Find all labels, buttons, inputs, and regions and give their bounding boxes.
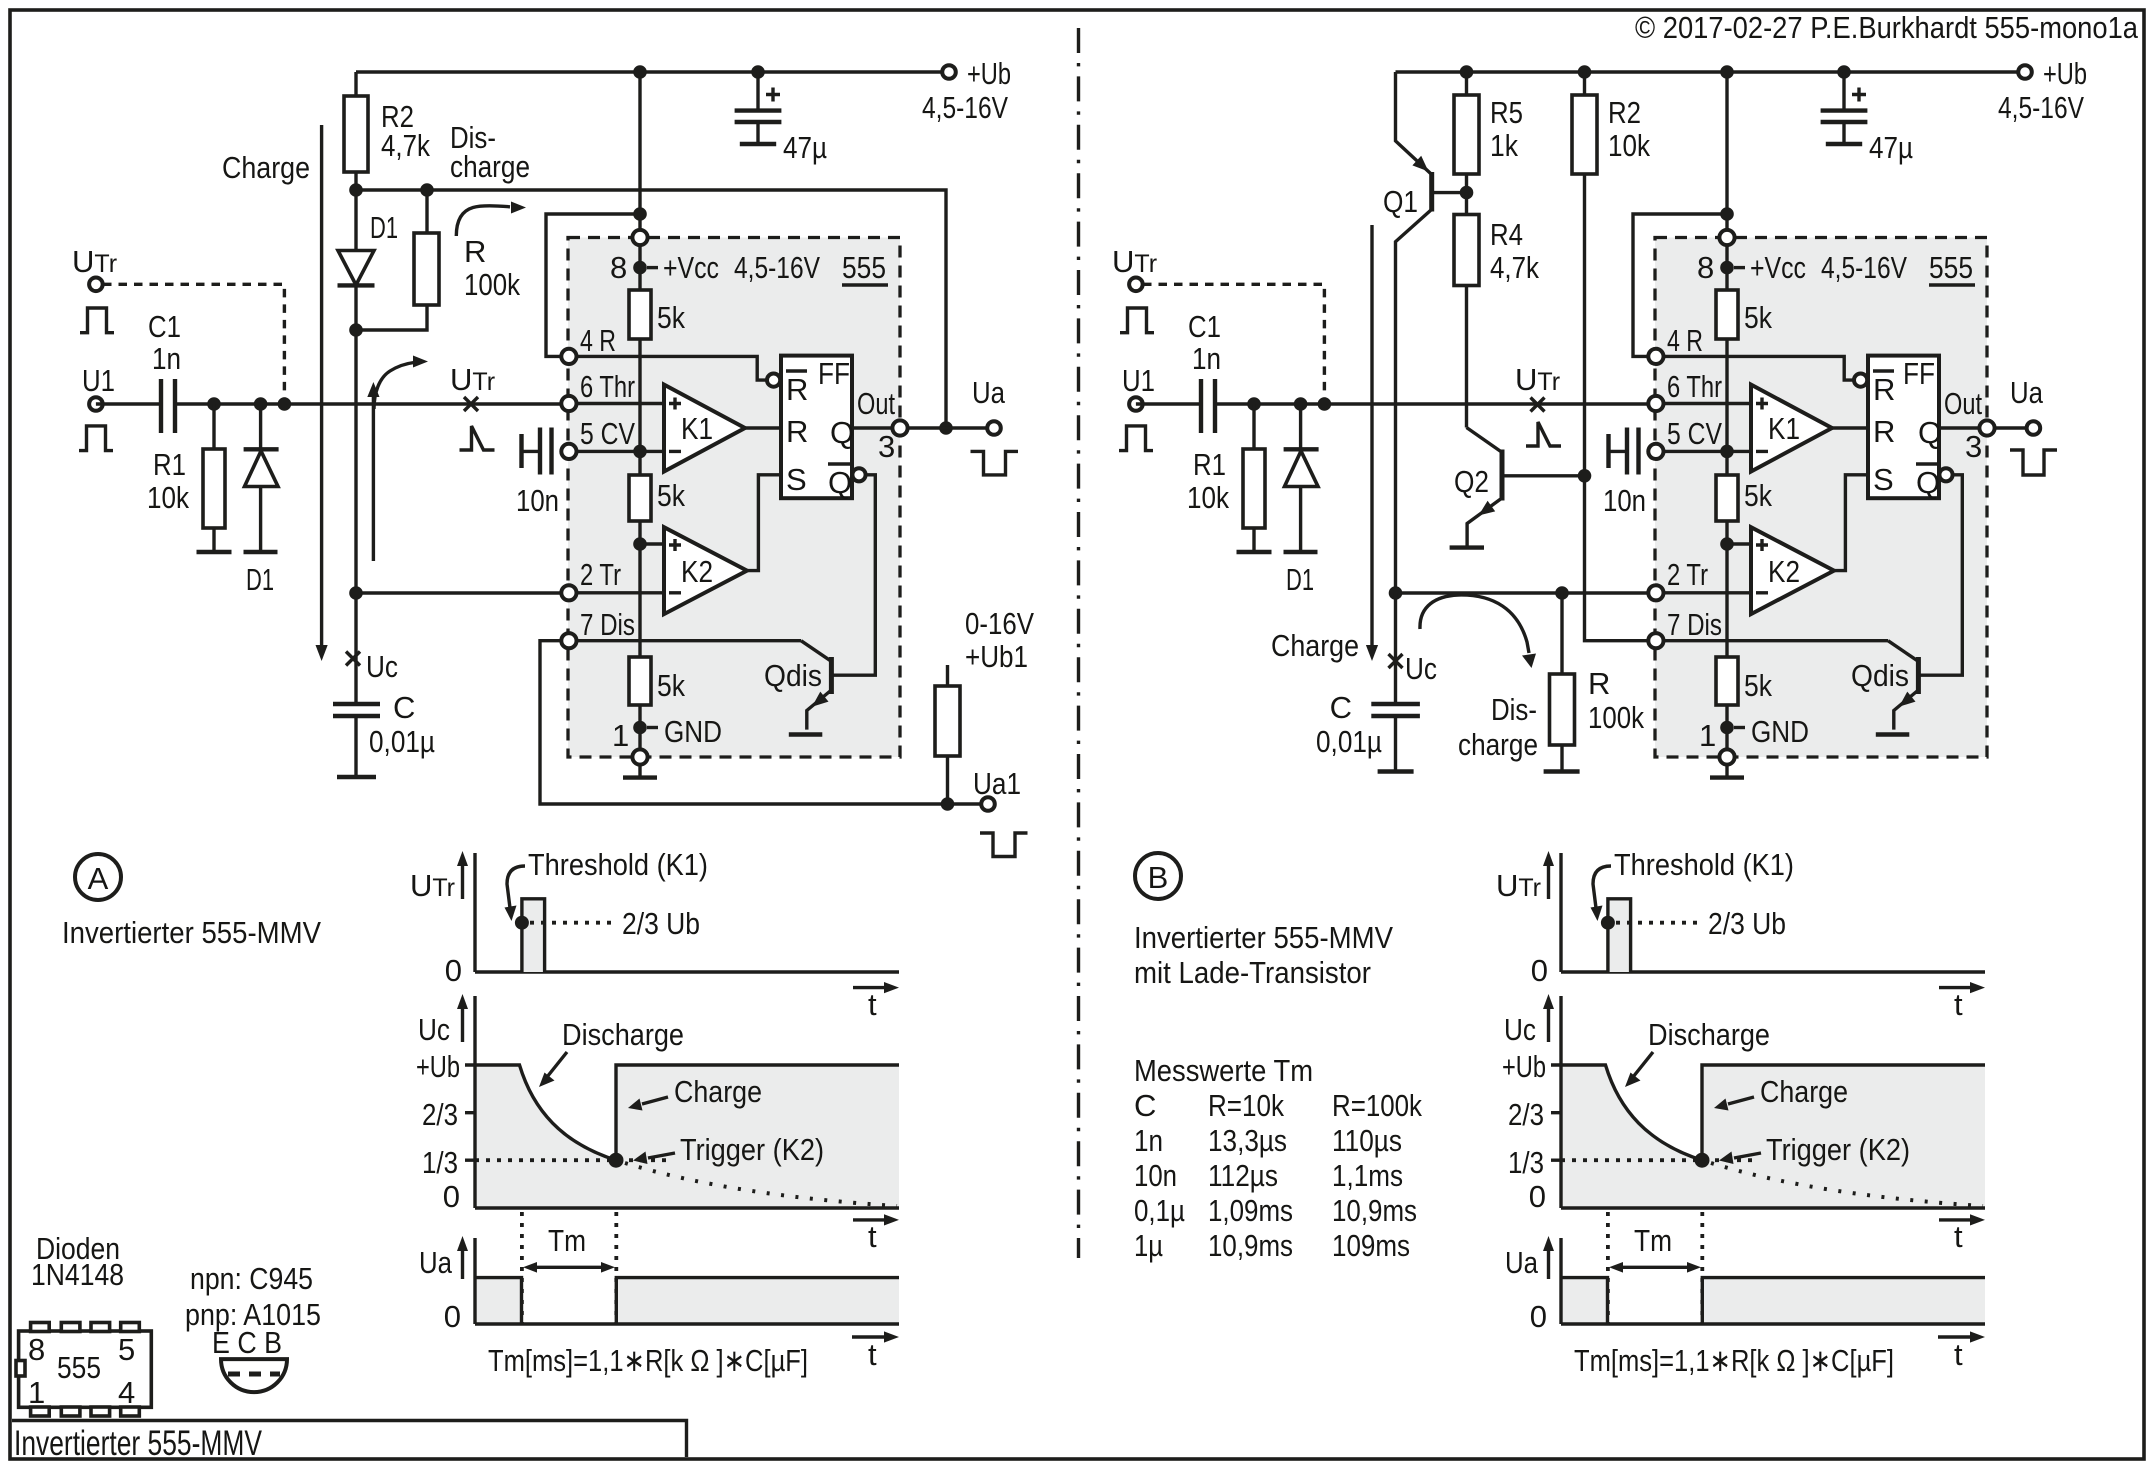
svg-text:Ua1: Ua1 xyxy=(973,766,1021,801)
svg-text:GND: GND xyxy=(1751,714,1809,749)
pulse glyph trigger spike B xyxy=(1526,422,1561,446)
wire trigger row to pin 2 xyxy=(356,591,569,594)
svg-text:Discharge: Discharge xyxy=(562,1017,684,1052)
svg-text:5k: 5k xyxy=(1744,300,1772,335)
IC 555 dashed box (A) xyxy=(568,238,900,758)
svg-text:+Vcc: +Vcc xyxy=(1750,250,1806,285)
wire 1/3 node to K2+ xyxy=(1727,542,1751,545)
IC 555 dashed box (B) xyxy=(1655,238,1987,758)
svg-text:100k: 100k xyxy=(464,267,520,302)
trigger dot xyxy=(609,1153,624,1168)
wire K1 out to FF R xyxy=(745,426,781,429)
svg-text:R: R xyxy=(464,234,486,269)
t axis arrow Uc xyxy=(853,1218,890,1221)
svg-text:Discharge: Discharge xyxy=(1648,1017,1770,1052)
svg-text:D1: D1 xyxy=(246,562,274,597)
svg-text:4,7k: 4,7k xyxy=(1490,250,1539,285)
svg-text:7 Dis: 7 Dis xyxy=(1667,607,1722,642)
Ua axis xyxy=(475,1238,899,1324)
svg-text:R: R xyxy=(1588,666,1610,701)
terminal UTr input B xyxy=(1129,278,1143,292)
junction dots rail B xyxy=(1460,65,1474,79)
wire 4R row to Rbar bubble xyxy=(569,356,766,380)
svg-text:100k: 100k xyxy=(1588,700,1644,735)
svg-text:6 Thr: 6 Thr xyxy=(580,369,635,404)
t axis arrow Uc xyxy=(1939,1218,1976,1221)
svg-text:4 R: 4 R xyxy=(1667,323,1703,358)
svg-text:47µ: 47µ xyxy=(783,130,827,165)
node UTr marker B xyxy=(1531,398,1545,412)
svg-text:R1: R1 xyxy=(1193,447,1226,482)
svg-text:2 Tr: 2 Tr xyxy=(1667,557,1708,592)
op-amp K1 xyxy=(1751,385,1832,472)
svg-text:1n: 1n xyxy=(1192,341,1221,376)
svg-text:555: 555 xyxy=(842,250,886,285)
svg-text:Q: Q xyxy=(1916,465,1940,500)
title block box xyxy=(12,1421,687,1458)
svg-text:4,5-16V: 4,5-16V xyxy=(1998,90,2084,125)
dotted decay tail xyxy=(1711,1163,1983,1206)
terminal UTr input xyxy=(89,278,103,292)
wire K2 out to FF S xyxy=(747,475,781,571)
svg-text:+Ub: +Ub xyxy=(416,1049,460,1084)
svg-text:3: 3 xyxy=(1965,429,1982,464)
svg-text:npn: C945: npn: C945 xyxy=(190,1261,313,1296)
wire Tr row B xyxy=(1396,591,1656,594)
svg-text:t: t xyxy=(1954,1337,1963,1372)
svg-text:5 CV: 5 CV xyxy=(580,416,635,451)
Ua axis arrow xyxy=(461,1249,464,1279)
wire K2 out to FF S xyxy=(1834,475,1868,571)
svg-text:+Ub: +Ub xyxy=(967,56,1011,91)
pin 6 circle xyxy=(561,396,576,411)
threshold dot xyxy=(515,916,529,930)
svg-text:UTr: UTr xyxy=(1112,244,1157,279)
pin 8 circle xyxy=(1719,230,1734,245)
svg-text:8: 8 xyxy=(1697,250,1714,285)
svg-text:5k: 5k xyxy=(657,668,685,703)
svg-text:0: 0 xyxy=(443,1179,460,1214)
pulse glyph U1 input B xyxy=(1119,426,1153,451)
pin 7 circle xyxy=(561,633,576,648)
wire Q out xyxy=(852,426,994,429)
capacitor 47µ xyxy=(756,72,759,110)
svg-text:4,7k: 4,7k xyxy=(381,128,430,163)
svg-text:FF: FF xyxy=(1903,356,1935,391)
Ua axis xyxy=(1561,1238,1985,1324)
Out pin circle xyxy=(892,420,907,435)
node Uc marker xyxy=(346,652,360,666)
wire CV row xyxy=(569,450,664,453)
svg-text:Charge: Charge xyxy=(1271,628,1359,663)
wire rail to pin 8 B xyxy=(1725,72,1728,237)
svg-text:0: 0 xyxy=(1531,953,1548,988)
Uc waveform xyxy=(475,1065,899,1160)
wire Tr row xyxy=(1656,591,1751,594)
capacitor C1 1n B xyxy=(1136,402,1656,405)
svg-text:S: S xyxy=(1873,462,1894,497)
svg-text:Threshold (K1): Threshold (K1) xyxy=(1614,847,1794,882)
pin 7 circle xyxy=(1648,633,1663,648)
trigger pointer arrow xyxy=(648,1153,675,1158)
svg-text:10n: 10n xyxy=(516,483,559,518)
divider chain vertical wire xyxy=(1725,238,1728,758)
flip-flop FF box xyxy=(1868,356,1939,499)
pin 4 circle xyxy=(561,349,576,364)
level ticks xyxy=(465,1065,475,1160)
pin 8 circle xyxy=(632,230,647,245)
level ticks xyxy=(1551,1065,1561,1160)
svg-text:mit Lade-Transistor: mit Lade-Transistor xyxy=(1134,955,1371,990)
Rbar inversion bubble xyxy=(767,374,780,387)
divider chain vertical wire xyxy=(638,238,641,758)
wire rail to pin 8 xyxy=(638,72,641,237)
svg-text:Ua: Ua xyxy=(972,375,1006,410)
terminal +Ub xyxy=(942,65,956,79)
svg-text:Invertierter 555-MMV: Invertierter 555-MMV xyxy=(1134,920,1393,955)
resistor R5 1k xyxy=(1465,72,1468,193)
svg-text:5: 5 xyxy=(118,1332,135,1367)
pin 1 circle xyxy=(632,749,647,764)
svg-text:D1: D1 xyxy=(1286,562,1314,597)
svg-text:K2: K2 xyxy=(1768,554,1800,589)
terminal +Ub B xyxy=(2018,65,2032,79)
svg-text:1,09ms: 1,09ms xyxy=(1208,1193,1293,1228)
svg-text:Charge: Charge xyxy=(222,150,310,185)
pulse glyph Ua out xyxy=(2010,450,2057,475)
svg-text:Charge: Charge xyxy=(1760,1074,1848,1109)
svg-text:Invertierter 555-MMV: Invertierter 555-MMV xyxy=(14,1424,262,1463)
svg-text:1: 1 xyxy=(28,1375,45,1410)
svg-text:10n: 10n xyxy=(1134,1158,1177,1193)
pulse glyph U1 input xyxy=(79,426,113,451)
threshold pointer arrow xyxy=(1593,866,1611,908)
resistor 5k mid xyxy=(629,475,651,521)
svg-text:4,5-16V: 4,5-16V xyxy=(1821,250,1907,285)
pulse glyph trigger spike xyxy=(460,426,495,450)
dotted Tm verticals xyxy=(1608,1212,1702,1324)
wire pin7 row xyxy=(569,639,801,642)
resistor R1 10k xyxy=(212,404,215,551)
junction dots timing network xyxy=(633,65,647,79)
svg-text:6 Thr: 6 Thr xyxy=(1667,369,1722,404)
wire Thr row xyxy=(569,402,664,405)
svg-text:Dis-: Dis- xyxy=(1491,692,1537,727)
dotted 1/3 line xyxy=(1561,1158,1759,1162)
svg-text:C1: C1 xyxy=(1188,309,1221,344)
svg-text:Ua: Ua xyxy=(419,1245,453,1280)
svg-text:Uc: Uc xyxy=(1405,651,1437,686)
capacitor 10n xyxy=(1609,450,1628,453)
svg-text:Tm[ms]=1,1∗R[k Ω ]∗C[µF]: Tm[ms]=1,1∗R[k Ω ]∗C[µF] xyxy=(1574,1343,1894,1378)
op-amp K1 xyxy=(664,385,745,472)
svg-text:C1: C1 xyxy=(148,309,181,344)
svg-text:Threshold (K1): Threshold (K1) xyxy=(528,847,708,882)
charge pointer arrow xyxy=(1728,1097,1754,1104)
svg-text:Tm: Tm xyxy=(548,1223,586,1258)
pin 1 ground stub xyxy=(638,758,641,776)
svg-text:R=10k: R=10k xyxy=(1208,1088,1284,1123)
t axis arrow Ua xyxy=(852,1335,890,1338)
svg-text:4,5-16V: 4,5-16V xyxy=(734,250,820,285)
pulse glyph Ua1 xyxy=(980,833,1028,857)
resistor R 100k B xyxy=(1560,593,1563,674)
pin 5 circle xyxy=(1648,444,1663,459)
dotted Tm verticals xyxy=(522,1212,616,1324)
svg-text:2/3: 2/3 xyxy=(1508,1097,1544,1132)
svg-text:R: R xyxy=(786,372,808,407)
wire Qbar to Qdis base xyxy=(1920,475,1962,675)
resistor R 100k xyxy=(356,190,427,330)
svg-text:Messwerte Tm: Messwerte Tm xyxy=(1134,1053,1313,1088)
wire pin7 to Ua1 xyxy=(540,641,988,804)
junction dots input node xyxy=(207,397,221,411)
wire Q out xyxy=(1939,426,2033,429)
capacitor 10n xyxy=(522,450,541,453)
wire 4R row to Rbar bubble xyxy=(1656,356,1853,380)
svg-text:0,01µ: 0,01µ xyxy=(369,724,435,759)
svg-text:R2: R2 xyxy=(1608,95,1641,130)
pulse glyph UTr input B xyxy=(1120,308,1154,333)
discharge pointer arrow xyxy=(547,1052,567,1077)
DIP-8 package body xyxy=(19,1331,152,1407)
t axis arrow UTr xyxy=(1939,986,1976,989)
Uc axis xyxy=(475,996,899,1208)
svg-text:10k: 10k xyxy=(1608,128,1650,163)
svg-text:112µs: 112µs xyxy=(1208,1158,1278,1193)
UTr pulse xyxy=(522,899,545,972)
wire Tr row xyxy=(569,591,664,594)
transistor Qdis xyxy=(1888,641,1917,661)
transistor Q2 (npn) xyxy=(1467,428,1502,452)
wire K1 out to FF R xyxy=(1832,426,1868,429)
+Vcc tick and label xyxy=(1734,266,1745,269)
svg-text:K1: K1 xyxy=(681,411,713,446)
curved arrow lower xyxy=(374,363,414,410)
circled A xyxy=(75,854,121,900)
svg-text:0: 0 xyxy=(445,953,462,988)
svg-text:0: 0 xyxy=(444,1299,461,1334)
UTr pulse xyxy=(1608,899,1631,972)
svg-text:3: 3 xyxy=(878,429,895,464)
svg-text:+Ub: +Ub xyxy=(2043,56,2087,91)
discharge up arrow xyxy=(372,396,375,561)
svg-text:R: R xyxy=(1873,372,1895,407)
transistor Q1 (pnp) xyxy=(1396,72,1432,175)
pin 6 circle xyxy=(1648,396,1663,411)
svg-text:5 CV: 5 CV xyxy=(1667,416,1722,451)
terminal Ua xyxy=(2027,421,2041,435)
pin 1 ground stub xyxy=(1725,758,1728,776)
capacitor C 0,01µ B xyxy=(1394,593,1397,704)
svg-text:Trigger (K2): Trigger (K2) xyxy=(1766,1132,1910,1167)
dotted 2/3 level xyxy=(1616,921,1703,925)
Uc plot gray fill xyxy=(1561,1065,1985,1208)
svg-text:5k: 5k xyxy=(1744,668,1772,703)
svg-text:7 Dis: 7 Dis xyxy=(580,607,635,642)
svg-text:0,1µ: 0,1µ xyxy=(1134,1193,1185,1228)
charge flow arrow xyxy=(320,125,323,647)
svg-text:1/3: 1/3 xyxy=(422,1145,458,1180)
svg-text:FF: FF xyxy=(818,356,850,391)
svg-text:1N4148: 1N4148 xyxy=(31,1257,124,1292)
+Ub supply rail wire xyxy=(356,70,949,73)
resistor 5k top xyxy=(629,290,651,339)
svg-text:Uc: Uc xyxy=(1504,1012,1536,1047)
svg-text:13,3µs: 13,3µs xyxy=(1208,1123,1287,1158)
svg-text:555: 555 xyxy=(57,1350,101,1385)
svg-text:K2: K2 xyxy=(681,554,713,589)
svg-text:C: C xyxy=(1134,1088,1156,1123)
svg-text:UTr: UTr xyxy=(410,868,455,903)
circled B xyxy=(1135,853,1181,899)
svg-text:Ua: Ua xyxy=(2010,375,2044,410)
svg-text:UTr: UTr xyxy=(1496,868,1541,903)
svg-text:1: 1 xyxy=(1699,718,1716,753)
resistor 0-16V +Ub1 xyxy=(946,665,949,804)
svg-text:Out: Out xyxy=(1944,386,1982,421)
Uc axis arrow xyxy=(461,1007,464,1042)
capacitor C 0,01µ xyxy=(354,330,357,704)
terminal Ua1 xyxy=(981,797,995,811)
svg-text:8: 8 xyxy=(610,250,627,285)
UTr axis arrow xyxy=(461,864,464,899)
terminal Ua xyxy=(987,421,1001,435)
UTr axis arrow xyxy=(1547,864,1550,899)
Qbar bubble xyxy=(1939,468,1952,481)
pin 2 circle xyxy=(561,585,576,600)
UTr dashed probe wire B xyxy=(1143,284,1324,404)
node UTr marker mid xyxy=(464,397,478,411)
svg-text:1µ: 1µ xyxy=(1134,1228,1163,1263)
svg-text:5k: 5k xyxy=(657,478,685,513)
svg-text:Q: Q xyxy=(830,415,854,450)
resistor 5k top xyxy=(1716,290,1738,339)
svg-text:10n: 10n xyxy=(1603,483,1646,518)
op-amp K2 xyxy=(1751,527,1834,614)
svg-text:t: t xyxy=(868,1219,877,1254)
svg-text:Tm[ms]=1,1∗R[k Ω ]∗C[µF]: Tm[ms]=1,1∗R[k Ω ]∗C[µF] xyxy=(488,1343,808,1378)
svg-text:4: 4 xyxy=(118,1375,135,1410)
t axis arrow Ua xyxy=(1938,1335,1976,1338)
wire Qbar to Qdis base xyxy=(833,475,875,675)
svg-text:5k: 5k xyxy=(1744,478,1772,513)
svg-text:UTr: UTr xyxy=(450,362,495,397)
svg-text:0: 0 xyxy=(1529,1179,1546,1214)
svg-text:C: C xyxy=(393,690,415,725)
pin 5 circle xyxy=(561,444,576,459)
svg-text:B: B xyxy=(1148,860,1169,895)
svg-text:0: 0 xyxy=(1530,1299,1547,1334)
Ua plot gray fills xyxy=(1561,1278,1608,1324)
discharge pointer arrow xyxy=(1633,1052,1653,1077)
pin 4 circle xyxy=(1648,349,1663,364)
svg-text:+Ub1: +Ub1 xyxy=(965,639,1028,674)
svg-text:47µ: 47µ xyxy=(1869,130,1913,165)
svg-text:t: t xyxy=(1954,1219,1963,1254)
svg-text:Uc: Uc xyxy=(366,649,398,684)
Uc axis xyxy=(1561,996,1985,1208)
svg-text:5k: 5k xyxy=(657,300,685,335)
Uc plot gray fill xyxy=(475,1065,899,1208)
resistor 5k bottom xyxy=(629,657,651,705)
Out pin circle xyxy=(1979,420,1994,435)
TO-92 package outline xyxy=(221,1359,287,1392)
transistor Qdis xyxy=(801,641,830,661)
dash-dot divider line xyxy=(1077,28,1080,1258)
GND tick and label xyxy=(647,726,658,729)
Uc axis arrow xyxy=(1547,1007,1550,1042)
wire pin7 row xyxy=(1656,639,1888,642)
svg-text:1n: 1n xyxy=(1134,1123,1163,1158)
svg-text:0-16V: 0-16V xyxy=(965,606,1034,641)
curved arrow upper xyxy=(456,206,510,236)
svg-text:2/3 Ub: 2/3 Ub xyxy=(1708,906,1786,941)
pin 2 circle xyxy=(1648,585,1663,600)
capacitor 47µ B xyxy=(1842,72,1845,110)
node Uc marker B xyxy=(1389,654,1403,668)
wire Thr row xyxy=(1656,402,1751,405)
dotted 2/3 level xyxy=(530,921,617,925)
flip-flop FF box xyxy=(781,356,852,499)
svg-text:Ua: Ua xyxy=(1505,1245,1539,1280)
svg-text:Q: Q xyxy=(1918,415,1942,450)
pulse glyph UTr input xyxy=(80,308,114,333)
Uc white wedge xyxy=(1606,1065,1703,1160)
svg-text:D1: D1 xyxy=(370,210,398,245)
DIP pin1 notch xyxy=(16,1361,25,1377)
svg-text:UTr: UTr xyxy=(72,244,117,279)
svg-text:1: 1 xyxy=(612,718,629,753)
resistor R2 10k xyxy=(1585,72,1656,641)
svg-text:GND: GND xyxy=(664,714,722,749)
wire 1/3 node to K2+ xyxy=(640,542,664,545)
Tm span arrow xyxy=(1617,1266,1693,1269)
pulse glyph Ua out xyxy=(971,451,1019,475)
svg-text:A: A xyxy=(88,861,109,896)
threshold dot xyxy=(1601,916,1615,930)
wire reset branch to pin 4 B xyxy=(1633,214,1727,356)
svg-text:1n: 1n xyxy=(152,341,181,376)
UTr plot axis xyxy=(475,853,899,972)
GND tick and label xyxy=(1734,726,1745,729)
resistor 5k bottom xyxy=(1716,657,1738,705)
svg-text:4,5-16V: 4,5-16V xyxy=(922,90,1008,125)
trigger dot xyxy=(1695,1153,1710,1168)
terminal U1 input B xyxy=(1129,397,1143,411)
svg-text:10,9ms: 10,9ms xyxy=(1208,1228,1293,1263)
Uc white wedge xyxy=(520,1065,617,1160)
svg-text:555: 555 xyxy=(1929,250,1973,285)
svg-text:Out: Out xyxy=(857,386,895,421)
svg-text:R: R xyxy=(1873,414,1895,449)
svg-text:S: S xyxy=(786,462,807,497)
svg-text:t: t xyxy=(868,987,877,1022)
svg-text:U1: U1 xyxy=(82,363,115,398)
svg-text:E C B: E C B xyxy=(212,1325,282,1360)
svg-text:R=100k: R=100k xyxy=(1332,1088,1422,1123)
svg-text:Q: Q xyxy=(828,465,852,500)
charge pointer arrow xyxy=(642,1097,668,1104)
svg-text:U1: U1 xyxy=(1122,363,1155,398)
svg-text:1k: 1k xyxy=(1490,128,1518,163)
svg-text:0,01µ: 0,01µ xyxy=(1316,724,1382,759)
svg-text:R5: R5 xyxy=(1490,95,1523,130)
TO-92 dashed chord xyxy=(228,1372,280,1377)
junction dots input node B xyxy=(1247,397,1261,411)
Rbar inversion bubble xyxy=(1854,374,1867,387)
charge flow arrow B xyxy=(1370,225,1373,647)
